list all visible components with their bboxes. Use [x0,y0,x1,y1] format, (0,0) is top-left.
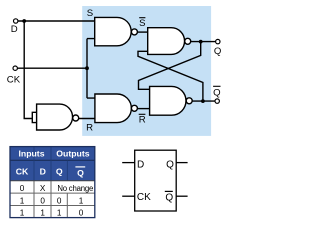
svg-text:Q: Q [213,88,220,99]
svg-text:D: D [137,160,144,171]
svg-text:0: 0 [79,208,84,217]
svg-text:0: 0 [57,196,62,205]
svg-text:0: 0 [40,196,45,205]
svg-text:1: 1 [40,208,45,217]
svg-text:D: D [40,166,46,176]
svg-text:X: X [40,184,46,193]
svg-text:0: 0 [20,184,25,193]
svg-text:No change: No change [57,184,93,193]
svg-text:CK: CK [137,192,151,203]
svg-text:1: 1 [20,208,25,217]
svg-text:D: D [11,24,18,35]
svg-text:R: R [139,115,146,126]
svg-text:S: S [139,18,145,29]
svg-text:CK: CK [16,166,29,176]
svg-text:S: S [87,8,93,19]
svg-text:1: 1 [79,196,84,205]
svg-text:1: 1 [57,208,62,217]
svg-text:1: 1 [20,196,25,205]
svg-text:Inputs: Inputs [18,149,44,159]
svg-text:CK: CK [7,74,21,85]
svg-text:Outputs: Outputs [56,149,89,159]
svg-text:Q: Q [77,168,84,178]
svg-text:Q: Q [166,160,174,171]
svg-text:Q: Q [214,46,221,57]
svg-text:Q: Q [56,166,63,176]
svg-text:Q: Q [165,193,173,204]
svg-text:R: R [86,123,93,134]
